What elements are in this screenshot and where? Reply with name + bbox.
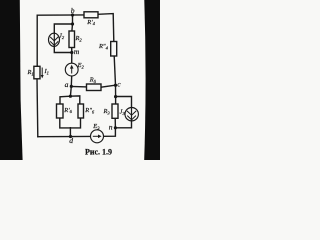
resistor R1 (34, 66, 40, 79)
wire left branch lower (36, 79, 39, 137)
resistor R'6 (57, 104, 64, 118)
node c (114, 84, 117, 87)
wire junction to R3 (115, 97, 117, 104)
svg-text:d: d (69, 136, 73, 145)
emf source E3 (91, 130, 104, 143)
wire R6 split (60, 96, 80, 104)
resistor R''6 (78, 104, 84, 118)
wire J3 bottom link (115, 121, 131, 128)
svg-text:n: n (109, 123, 113, 132)
wire E2 to a to split (70, 76, 71, 96)
resistor R'4 (84, 12, 98, 18)
emf source E2 (65, 63, 78, 76)
resistor R3 (112, 104, 118, 118)
wire top b (37, 14, 84, 16)
current source J3 (125, 107, 138, 121)
wire J2 bottom link (54, 46, 72, 52)
resistor R5 (87, 84, 102, 91)
wire R''4 to c to junction (114, 56, 115, 97)
wire bottom d (38, 135, 91, 137)
wire bottom right (104, 128, 116, 137)
node split R6 (69, 95, 72, 98)
wire R6 join (60, 118, 81, 137)
wire J3 top link (116, 97, 132, 108)
node m (70, 51, 73, 54)
svg-text:b: b (71, 6, 75, 15)
wire a to R5 (71, 85, 86, 88)
node a (70, 85, 73, 88)
node b (71, 13, 74, 16)
resistor R2 (69, 31, 75, 48)
current source J2 (49, 33, 60, 46)
node n (114, 126, 117, 129)
current arrow I1 (41, 68, 44, 79)
wire b to junction to R2 (71, 15, 74, 31)
node junction R3/J3 (114, 95, 117, 98)
wire R2 to m to E2 (71, 48, 73, 64)
wire R3 to n (114, 118, 116, 128)
wire top right corner (98, 14, 114, 42)
wire J2 top link (54, 24, 72, 33)
resistor R''4 (111, 42, 117, 57)
node d (69, 135, 72, 138)
wire left branch upper (36, 15, 38, 66)
svg-text:m: m (74, 47, 80, 56)
wire R5 to c (101, 85, 116, 87)
node junction J2/R2 (71, 22, 74, 25)
svg-text:Рис. 1.9: Рис. 1.9 (85, 148, 112, 157)
svg-text:a: a (65, 80, 69, 89)
